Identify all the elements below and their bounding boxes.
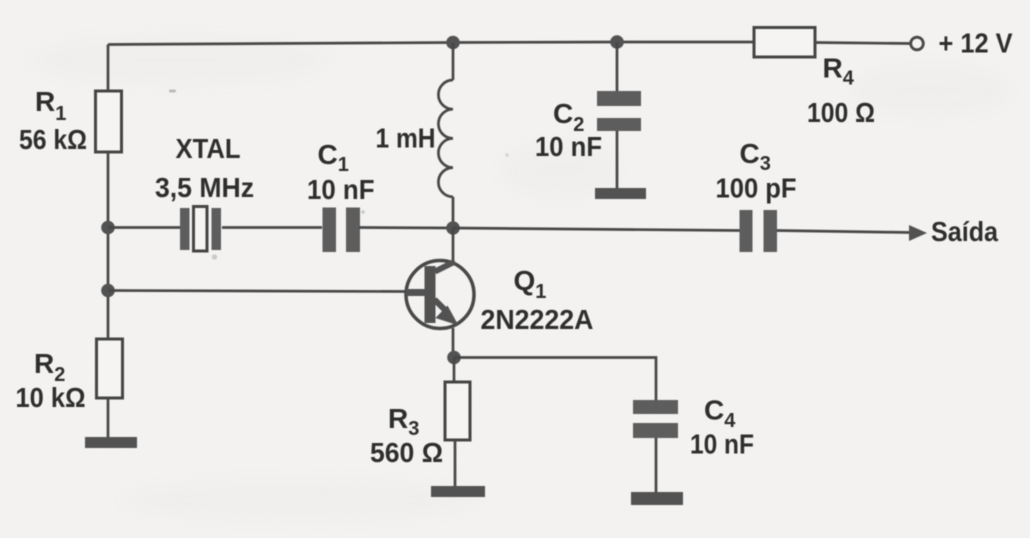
capacitor C4 [633,400,678,438]
wire base from node to transistor [108,291,407,292]
inductor L1 1 mH [438,43,453,229]
terminal +12V open circle [911,37,924,50]
svg-text:100 pF: 100 pF [716,173,797,204]
wire C4 to ground [655,438,658,494]
wire node to crystal [108,226,180,229]
wire emitter node to R3 [453,358,456,383]
resistor R2 [97,339,123,398]
node divider-crystal junction [101,221,115,235]
svg-text:3,5 MHz: 3,5 MHz [155,172,254,203]
svg-text:100 Ω: 100 Ω [807,97,875,128]
wire left vertical R1 to R2 [107,152,110,339]
wire crystal to C1 [222,226,322,229]
wire collector node to C3 [453,228,740,231]
ground C4 [631,492,683,505]
wire emitter to node [452,328,455,358]
resistor R1 [96,91,122,152]
crystal XTAL [180,207,221,252]
node base junction [101,284,115,298]
capacitor C3 [740,210,778,252]
svg-text:Saída: Saída [931,216,998,247]
svg-text:1 mH: 1 mH [376,123,436,154]
ground R2 [85,437,137,448]
svg-text:10 kΩ: 10 kΩ [16,382,86,413]
node emitter junction [447,351,461,365]
wire top supply rail [108,42,911,45]
wire C2 to ground [616,131,619,190]
node C2 junction [610,35,624,49]
svg-text:10 nF: 10 nF [535,131,602,162]
svg-text:560 Ω: 560 Ω [370,437,443,468]
svg-text:+ 12 V: + 12 V [939,28,1013,59]
svg-text:2N2222A: 2N2222A [481,304,594,335]
wire emitter node to C4 [454,358,656,401]
node collector junction [446,221,460,235]
wire left drop from rail to R1 [107,45,110,92]
ground C2 [595,188,646,199]
wire collector node to transistor [452,228,455,262]
resistor R4 [754,28,815,58]
node top rail inductor junction [446,36,460,50]
transistor Q1 [406,261,474,329]
wire C1 to collector node [359,226,453,229]
ground R3 [431,486,485,497]
svg-text:10 nF: 10 nF [307,174,375,205]
wire R3 to ground [454,440,457,490]
resistor R3 [445,382,470,440]
wire C3 to output [777,231,910,233]
wire R2 to ground [107,398,110,441]
capacitor C1 [323,208,361,253]
output arrow [909,225,927,241]
capacitor C2 [597,91,641,131]
svg-text:56 kΩ: 56 kΩ [19,124,87,155]
svg-text:XTAL: XTAL [176,133,241,164]
wire rail to C2 [616,42,619,92]
svg-text:10 nF: 10 nF [690,429,754,460]
